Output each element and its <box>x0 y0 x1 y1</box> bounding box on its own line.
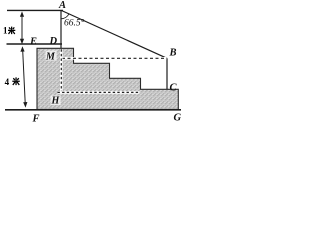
bottom ground line FG <box>5 109 181 111</box>
staircase shaded region <box>37 48 178 109</box>
dashed MH vertical <box>60 49 62 92</box>
1m double arrow <box>20 11 24 44</box>
dashed H horizontal <box>58 91 140 93</box>
label M <box>46 51 57 61</box>
svg-text:66.5°: 66.5° <box>64 18 85 29</box>
svg-text:G: G <box>174 113 182 124</box>
svg-text:C: C <box>170 83 178 94</box>
svg-text:M: M <box>45 52 56 63</box>
svg-text:A: A <box>58 0 66 11</box>
dashed MH halo <box>60 49 63 92</box>
vertical BC <box>166 58 168 89</box>
angle arc at A <box>61 14 69 19</box>
svg-text:H: H <box>51 96 61 107</box>
dashed MB <box>62 57 167 59</box>
dashed MB halo <box>62 57 167 60</box>
svg-text:F: F <box>32 114 40 125</box>
1m label <box>3 25 15 35</box>
4m label <box>5 77 20 87</box>
top horizontal line <box>7 9 63 11</box>
dashed H halo <box>58 91 140 94</box>
4m double arrow <box>20 46 27 107</box>
diagonal AB <box>62 11 168 59</box>
label H <box>51 96 61 106</box>
svg-text:B: B <box>169 48 177 59</box>
E-D horizontal line <box>7 43 63 45</box>
svg-text:D: D <box>49 36 58 47</box>
svg-text:4: 4 <box>5 77 10 87</box>
vertical segment A to D <box>60 10 62 48</box>
svg-text:1: 1 <box>3 25 8 35</box>
svg-text:E: E <box>29 37 37 48</box>
